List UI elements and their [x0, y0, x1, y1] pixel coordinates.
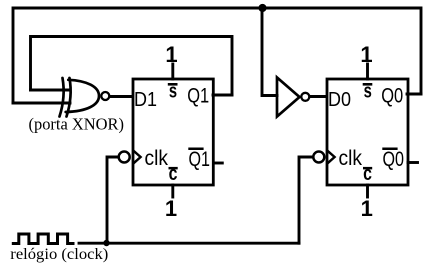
- wire C0 pull-down: [366, 185, 369, 197]
- FF1 clk wedge: [133, 150, 141, 164]
- FF2 clk wedge: [327, 150, 335, 164]
- junction node clock bus: [103, 240, 109, 246]
- inverter bubble: [301, 93, 309, 101]
- inverter U2: [277, 78, 300, 117]
- wire Q1-bar stub: [214, 162, 223, 165]
- XNOR gate (porta XNOR): [60, 78, 100, 117]
- wire XNOR output to D1: [110, 95, 132, 98]
- wire XNOR bottom input: [13, 102, 70, 105]
- svg-text:Q1: Q1: [187, 85, 209, 108]
- svg-text:1: 1: [165, 42, 177, 67]
- wire inverter output to D0: [310, 95, 326, 98]
- FF1 clk bubble: [119, 152, 130, 163]
- svg-text:D1: D1: [134, 88, 157, 111]
- wire inverter input from top loop: [262, 8, 277, 96]
- svg-text:clk: clk: [339, 147, 363, 170]
- svg-text:1: 1: [361, 196, 373, 221]
- wire S0 pull-up: [366, 64, 369, 79]
- wire C1 pull-down: [171, 185, 174, 197]
- wire inner feedback loop: [31, 37, 233, 96]
- wire clk to FF1: [107, 157, 118, 243]
- clock waveform symbol: [13, 234, 73, 244]
- flip-flop U0 box (D0): [327, 79, 408, 185]
- svg-text:(porta XNOR): (porta XNOR): [29, 115, 125, 134]
- svg-text:relógio (clock): relógio (clock): [10, 246, 108, 263]
- svg-text:Q1: Q1: [189, 148, 211, 171]
- wire clock bus bottom: [79, 242, 299, 245]
- wire XNOR top input: [31, 89, 71, 92]
- wire clk to FF2: [299, 157, 312, 243]
- wire Q0 stub to outer loop: [407, 93, 421, 96]
- flip-flop U1 box (D1): [133, 79, 213, 185]
- svg-text:Q0: Q0: [383, 148, 405, 171]
- svg-text:c: c: [169, 163, 178, 185]
- XNOR output bubble: [101, 92, 109, 100]
- svg-text:c: c: [363, 163, 372, 185]
- svg-text:Q0: Q0: [381, 85, 403, 108]
- svg-text:clk: clk: [145, 147, 169, 170]
- svg-text:D0: D0: [328, 88, 351, 111]
- wire outer feedback top: [13, 8, 421, 103]
- svg-text:1: 1: [165, 196, 177, 221]
- wire S1 pull-up: [171, 64, 174, 79]
- wire Q1 stub to inner loop: [213, 94, 232, 97]
- svg-text:1: 1: [360, 42, 372, 67]
- wire Q0-bar stub: [408, 161, 418, 164]
- junction node top (feedback to inverter): [258, 4, 266, 12]
- FF2 clk bubble: [313, 152, 324, 163]
